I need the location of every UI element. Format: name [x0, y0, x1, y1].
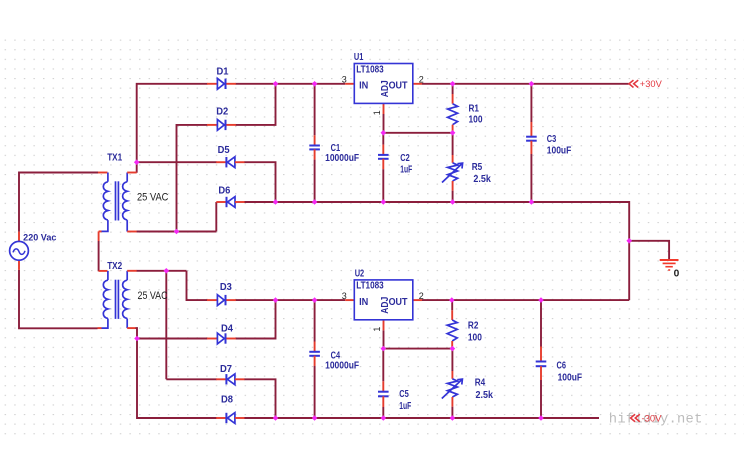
diode D5 — [216, 161, 225, 163]
svg-text:220 Vac: 220 Vac — [23, 233, 56, 243]
svg-text:2.5k: 2.5k — [476, 390, 494, 401]
wire — [19, 173, 98, 232]
diode D7 — [216, 378, 225, 380]
wire — [422, 299, 629, 301]
svg-text:R1: R1 — [469, 104, 480, 115]
svg-text:TX2: TX2 — [107, 261, 122, 272]
svg-text:ADJ: ADJ — [380, 80, 391, 97]
wire — [422, 83, 629, 85]
svg-text:2: 2 — [419, 74, 424, 84]
wire — [383, 330, 385, 348]
wire — [136, 328, 217, 418]
svg-text:D3: D3 — [220, 282, 233, 293]
svg-text:R2: R2 — [468, 320, 479, 331]
wire — [137, 84, 208, 173]
svg-text:D5: D5 — [218, 145, 231, 156]
diode D1 — [207, 83, 218, 85]
svg-text:+30V: +30V — [640, 79, 663, 90]
wire — [244, 379, 275, 418]
svg-text:D2: D2 — [216, 107, 229, 118]
diode D6 — [216, 201, 225, 203]
svg-text:3: 3 — [342, 291, 347, 301]
diode D8 — [216, 417, 225, 419]
svg-text:R4: R4 — [475, 378, 486, 389]
svg-text:100: 100 — [469, 115, 483, 126]
resistor R2 — [451, 300, 453, 310]
junction dots — [134, 159, 140, 165]
wire — [19, 270, 98, 328]
svg-text:1: 1 — [372, 327, 382, 332]
pin number 1 — [372, 327, 382, 332]
wire — [383, 114, 385, 133]
svg-text:2.5k: 2.5k — [473, 174, 491, 185]
wire — [236, 83, 346, 85]
diode D3 — [207, 299, 218, 301]
svg-text:OUT: OUT — [389, 297, 408, 308]
svg-text:D7: D7 — [220, 364, 233, 375]
power port -30V — [631, 414, 640, 421]
capacitor C6 — [540, 300, 542, 346]
svg-text:1: 1 — [372, 110, 382, 115]
wire — [236, 84, 276, 125]
potentiometer R4 — [451, 349, 453, 371]
svg-text:D4: D4 — [221, 323, 234, 334]
capacitor C4 — [314, 300, 316, 341]
svg-text:2: 2 — [419, 291, 424, 301]
wire — [276, 202, 630, 300]
wire — [383, 348, 452, 350]
svg-text:1uF: 1uF — [400, 165, 412, 176]
svg-text:10000uF: 10000uF — [325, 360, 359, 371]
wire — [177, 125, 208, 232]
svg-text:LT1083: LT1083 — [356, 64, 384, 75]
svg-text:LT1083: LT1083 — [356, 281, 384, 292]
regulator U2 LT1083 — [345, 299, 354, 301]
wire — [137, 231, 217, 233]
pin number 1 — [372, 110, 382, 115]
wire — [137, 161, 217, 163]
svg-text:U2: U2 — [355, 269, 365, 280]
wire — [165, 271, 167, 380]
wire — [236, 300, 276, 338]
regulator U1 LT1083 — [345, 83, 354, 85]
wire — [187, 271, 208, 300]
power port +30V — [629, 80, 638, 87]
svg-text:C5: C5 — [399, 389, 409, 400]
diode D2 — [207, 124, 218, 126]
svg-text:-30V: -30V — [642, 414, 663, 425]
svg-text:TX1: TX1 — [107, 152, 122, 163]
svg-text:OUT: OUT — [389, 80, 408, 91]
svg-text:10000uF: 10000uF — [325, 153, 359, 164]
wire — [98, 241, 100, 271]
wire — [236, 299, 346, 301]
wire — [244, 201, 275, 203]
transformer TX1 — [98, 172, 108, 174]
diode D4 — [207, 338, 218, 340]
svg-text:C6: C6 — [557, 360, 567, 371]
AC source V1 220 Vac — [18, 232, 20, 242]
potentiometer R5 — [452, 133, 454, 155]
svg-text:C2: C2 — [400, 153, 410, 164]
svg-text:U1: U1 — [354, 52, 364, 63]
svg-text:100uF: 100uF — [547, 146, 572, 157]
capacitor C2 — [382, 133, 384, 145]
svg-text:ADJ: ADJ — [380, 297, 391, 314]
svg-text:D8: D8 — [221, 395, 234, 406]
svg-text:D6: D6 — [218, 186, 231, 197]
wire — [137, 338, 208, 340]
svg-text:25 VAC: 25 VAC — [137, 191, 168, 203]
wire — [244, 417, 599, 419]
wire — [383, 132, 452, 134]
svg-text:IN: IN — [359, 80, 368, 91]
wire — [137, 270, 187, 272]
svg-text:1uF: 1uF — [399, 401, 411, 412]
wire — [166, 378, 216, 380]
wire — [244, 162, 275, 202]
resistor R1 — [452, 84, 454, 94]
svg-text:IN: IN — [359, 297, 368, 308]
svg-text:100: 100 — [468, 333, 482, 344]
capacitor C3 — [530, 84, 532, 122]
capacitor C5 — [382, 349, 384, 382]
svg-text:D1: D1 — [217, 67, 230, 78]
wire — [215, 202, 217, 232]
transformer TX2 — [99, 270, 108, 272]
svg-text:25 VAC: 25 VAC — [138, 290, 168, 302]
svg-text:R5: R5 — [472, 162, 483, 173]
svg-text:C3: C3 — [547, 134, 557, 145]
wire — [629, 241, 669, 259]
svg-text:100uF: 100uF — [558, 372, 583, 383]
capacitor C1 — [314, 84, 316, 136]
ground symbol 0 — [660, 259, 679, 261]
svg-text:3: 3 — [342, 74, 347, 84]
svg-text:0: 0 — [674, 268, 680, 279]
